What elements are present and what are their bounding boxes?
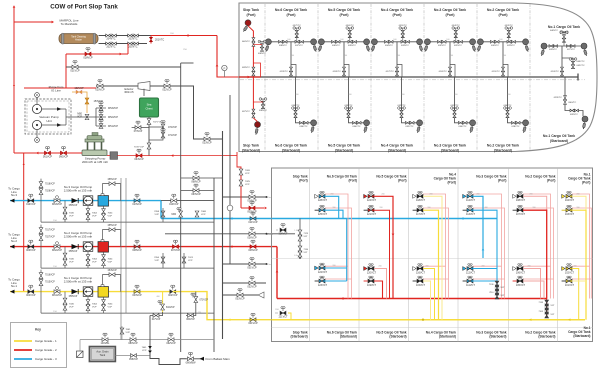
svg-text:7064: 7064 [92, 213, 98, 215]
key cargo grade 1 [14, 340, 32, 342]
svg-text:120VCT: 120VCT [367, 271, 377, 274]
wire strip stub No.6 stbdC [325, 265, 348, 267]
check valve vac 1 [42, 108, 66, 110]
svg-text:7041: 7041 [142, 347, 148, 349]
valve pair 032VTC No.4S [406, 121, 410, 124]
svg-text:117VCT: 117VCT [416, 213, 425, 216]
svg-text:063VCP: 063VCP [191, 193, 201, 196]
wire heater outlet top [99, 35, 152, 37]
svg-text:205VTC: 205VTC [128, 45, 137, 48]
wire route 124VCT [374, 196, 393, 298]
svg-text:126VCT: 126VCT [278, 233, 288, 236]
wire bus x214 [213, 178, 215, 352]
wire red drop left [65, 54, 67, 88]
valve 018VCP [85, 52, 91, 56]
wire route 128VCT [325, 196, 339, 218]
svg-text:1.20m: 1.20m [267, 234, 273, 236]
No.2 cargo oil pump [83, 242, 93, 252]
arrow to cargo line No.2 [10, 245, 15, 249]
valve pair 029VTC No.2P [507, 40, 511, 43]
svg-text:Aux. Drain: Aux. Drain [96, 350, 109, 354]
svg-text:No.3 Cargo Oil Tank: No.3 Cargo Oil Tank [434, 144, 466, 148]
svg-text:037VTC: 037VTC [242, 111, 250, 113]
deck column line 4 [457, 168, 459, 342]
svg-text:6.5m: 6.5m [267, 264, 272, 266]
wire red vert x241 [240, 170, 242, 208]
svg-text:032VTC: 032VTC [438, 45, 446, 47]
wire MARPOL branch to manifolds [14, 21, 52, 23]
wire purge line [24, 87, 96, 89]
wire route No.4A [423, 196, 442, 319]
svg-text:064VCP: 064VCP [134, 158, 144, 161]
wire route 105VCT [523, 281, 544, 299]
valve cluster 038VTC slopS [259, 98, 262, 101]
eductor 300m3/h [138, 82, 150, 91]
vacuum pump unit box [25, 99, 71, 134]
svg-text:103VCT: 103VCT [565, 213, 575, 216]
valve cluster 041VTC no1S [570, 109, 574, 112]
svg-text:034VTC: 034VTC [352, 126, 360, 128]
svg-text:026VCP: 026VCP [247, 236, 257, 239]
wire route 125VCT [325, 210, 343, 218]
valve cluster 032VTC No.4S [398, 107, 401, 110]
valve M51VCP [99, 124, 103, 129]
valve 013VCP [134, 199, 140, 203]
svg-text:(Starboard): (Starboard) [340, 335, 357, 339]
wire drop No.5 port [343, 42, 345, 77]
machine No.5 port left [318, 44, 323, 52]
svg-text:(Port): (Port) [445, 13, 454, 17]
svg-text:010VCP: 010VCP [169, 203, 179, 206]
valve 201VTC [150, 37, 153, 41]
svg-text:003VCP: 003VCP [132, 294, 142, 297]
svg-text:113VCT: 113VCT [466, 213, 475, 216]
machine no1 port right [581, 43, 588, 56]
svg-text:053VTC: 053VTC [505, 25, 513, 27]
valve stack 7136VCT [495, 281, 499, 287]
svg-text:121VCT: 121VCT [367, 213, 377, 216]
wire bus x121 [120, 178, 122, 340]
valve 119VCT No.5 stbd D [364, 280, 368, 282]
wire yellow jog [173, 292, 272, 320]
valve pair 010VTC no1 [561, 67, 564, 71]
svg-text:124VCT: 124VCT [367, 199, 377, 202]
wire drop No.3 port [449, 42, 451, 77]
wire 072 branch [149, 127, 163, 140]
svg-text:No.6 Cargo Oil Tank: No.6 Cargo Oil Tank [275, 8, 307, 12]
svg-text:200m³/h at 135 mth: 200m³/h at 135 mth [82, 160, 108, 164]
wire strip route No.1 portB [572, 208, 591, 299]
svg-text:M60: M60 [172, 214, 177, 216]
svg-text:034VTC: 034VTC [385, 45, 393, 47]
wire strip route No.2 portA [523, 194, 551, 299]
svg-text:(Port): (Port) [349, 179, 358, 183]
yellow main line [272, 319, 586, 321]
svg-text:6.5m: 6.5m [267, 197, 272, 199]
svg-text:300m³/h: 300m³/h [124, 90, 134, 94]
valve stack 7026VCP [239, 169, 243, 175]
svg-text:036VTC: 036VTC [332, 45, 340, 47]
check valves 7041VCP [148, 346, 152, 349]
wire red deck link [276, 247, 278, 299]
svg-text:022VCP: 022VCP [162, 89, 172, 92]
valve M50VCP [85, 114, 89, 119]
wire purge elbow [72, 92, 87, 113]
wire strip route No.6 portB [325, 208, 352, 299]
aux drain tank [89, 347, 115, 362]
machine No.5 port right [365, 44, 370, 52]
ship centerline [240, 79, 585, 81]
wire riser No.5 stbd [349, 77, 367, 123]
wire riser no1 stbd [565, 77, 583, 116]
wire drain header [80, 339, 214, 341]
svg-text:016VTC: 016VTC [439, 71, 447, 73]
svg-text:VCP: VCP [155, 214, 160, 216]
suction stub valves A No.2 [64, 247, 66, 269]
svg-text:107VCT: 107VCT [516, 213, 526, 216]
valve 052VTC no1 [560, 31, 563, 34]
svg-text:030VTC: 030VTC [568, 102, 576, 104]
blue main line [272, 218, 498, 220]
svg-text:(Port): (Port) [246, 13, 255, 17]
arrow red feed [230, 245, 232, 248]
svg-text:102VCT: 102VCT [565, 271, 575, 274]
svg-text:7056: 7056 [154, 257, 160, 259]
wire drop no1 port [561, 46, 563, 77]
svg-text:(Port): (Port) [448, 181, 457, 185]
deck column line 5 [508, 168, 510, 342]
svg-text:011VCP: 011VCP [248, 221, 257, 224]
wire strip stub No.2 stbdD [523, 278, 554, 280]
wire riser No.2 stbd [508, 77, 526, 123]
wire eductor line [96, 85, 138, 87]
valve pair 015VTC No.2P [502, 67, 505, 71]
svg-text:203VTC: 203VTC [128, 37, 137, 40]
svg-text:Key: Key [35, 328, 41, 332]
valve 617VCP2 [153, 314, 159, 318]
svg-text:073VCP: 073VCP [134, 131, 143, 133]
valve 002VCP [170, 290, 176, 294]
valve 7058VCP [161, 211, 165, 217]
arrow yellow main 1 [529, 318, 531, 321]
wire strip stub No.2 stbdC [523, 265, 551, 267]
svg-text:Slop Tank: Slop Tank [243, 144, 259, 148]
svg-text:037VTC: 037VTC [295, 45, 303, 47]
valve 123VCT No.6 stbd D [315, 280, 319, 282]
valve 104VCT No.1 port A [562, 194, 566, 198]
svg-text:004VCP: 004VCP [26, 294, 36, 297]
wire bus x180 [180, 63, 182, 352]
svg-text:7017VCP: 7017VCP [45, 230, 55, 232]
No.1 cargo oil pump [83, 287, 93, 297]
wire eductor drive down [143, 89, 145, 96]
valve cluster 034VTC No.6S [292, 107, 295, 110]
wire route 112VCT [473, 268, 497, 270]
machine slop port [242, 24, 249, 32]
svg-text:M: M [36, 93, 38, 97]
wire tank line no1 port [544, 45, 584, 47]
svg-text:7068: 7068 [201, 211, 207, 213]
valve 001VCP [250, 318, 256, 322]
bypass valve 155VCP [103, 230, 121, 247]
valve pair 030VTC No.2P [491, 40, 495, 43]
valve 128VCT No.6 port A [315, 194, 319, 198]
wire route 111VCT [473, 280, 497, 282]
valve 060VCPb [188, 314, 194, 318]
svg-text:033VTC: 033VTC [401, 45, 409, 47]
wire eductor outlet [150, 86, 223, 139]
arrow red main right [188, 34, 190, 37]
svg-text:VCP: VCP [126, 332, 131, 334]
tank separator line 4 [423, 4, 425, 151]
svg-text:042VTC: 042VTC [577, 65, 585, 67]
svg-text:Slop Tank: Slop Tank [243, 8, 259, 12]
deck row line mid [272, 258, 593, 260]
wire heater outlet bottom [99, 43, 148, 45]
valve 112VCT No.3 stbd C [463, 267, 467, 271]
bypass elbow slop [253, 63, 260, 77]
valve stack 7105VCT [545, 308, 549, 314]
svg-text:060VCP: 060VCP [59, 156, 69, 159]
valve 072VCP [161, 124, 165, 130]
svg-text:No.4 Cargo Oil Tank: No.4 Cargo Oil Tank [381, 8, 413, 12]
svg-text:018VCP: 018VCP [83, 57, 93, 60]
svg-text:(Starboard): (Starboard) [389, 335, 406, 339]
svg-text:062VCP: 062VCP [166, 342, 176, 345]
svg-text:No.5 Cargo Oil Tank: No.5 Cargo Oil Tank [328, 144, 360, 148]
valve 125VCT No.6 port B [315, 209, 319, 211]
tank separator line 2 [317, 4, 319, 151]
svg-text:617VCP: 617VCP [152, 319, 161, 321]
wire strip stub No.1 stbdD [572, 278, 591, 280]
arrow 005VCP [265, 207, 267, 210]
svg-text:018VTC: 018VTC [333, 71, 341, 73]
svg-text:204VTC: 204VTC [106, 37, 115, 40]
wire bus x222 [222, 131, 224, 339]
valve pair 034VTC No.4P [385, 40, 389, 43]
valve 021VCP [72, 65, 78, 69]
wire strip route No.4 portA [423, 194, 446, 299]
wire connector y63 [181, 62, 194, 64]
svg-text:112VCT: 112VCT [466, 271, 475, 274]
valve 121VCT No.5 port B [364, 209, 368, 211]
tank separator line 6 [529, 4, 531, 151]
machine No.4 port right [418, 44, 423, 52]
svg-text:VCP: VCP [245, 173, 250, 175]
key cargo grade 3 [14, 358, 32, 360]
wire gray y264 [223, 263, 267, 265]
svg-text:068VCP: 068VCP [191, 181, 201, 184]
wire blue drop No.6 stbd [346, 219, 348, 282]
wire drop No.6 port [290, 42, 292, 77]
bypass elbow No.3P [450, 65, 455, 78]
svg-text:To Manifolds: To Manifolds [61, 22, 78, 26]
svg-text:072VCP: 072VCP [168, 126, 177, 129]
svg-text:054VTC: 054VTC [452, 25, 460, 27]
arrow riser up mid [13, 84, 15, 86]
svg-text:7058: 7058 [154, 211, 160, 213]
machine No.6 stbd [310, 125, 314, 133]
pressure gauge P [223, 71, 225, 77]
arrow yellow feed [228, 318, 230, 321]
wire vac outlet [65, 109, 67, 125]
svg-text:043VTC: 043VTC [577, 61, 585, 63]
valve pair 017VTC No.4P [396, 67, 399, 71]
svg-text:010VTC: 010VTC [551, 71, 559, 73]
valve 008VCP [134, 245, 140, 249]
wire header y190 [181, 190, 214, 192]
svg-text:7045: 7045 [69, 304, 75, 306]
wire red feed 018VCP [66, 53, 128, 55]
machine No.3 stbd [469, 125, 473, 133]
svg-text:128VCT: 128VCT [318, 199, 328, 202]
tank separator line 3 [370, 4, 372, 151]
valve M62VCP [54, 245, 60, 249]
wire route 121VCT [374, 210, 390, 298]
svg-text:7025: 7025 [245, 181, 251, 183]
svg-text:036VTC: 036VTC [299, 126, 307, 128]
wire MARPOL red riser [13, 8, 15, 154]
svg-text:M52VCP: M52VCP [108, 116, 118, 119]
wire strip route No.3 portB [473, 208, 505, 299]
svg-text:Unit: Unit [46, 119, 52, 123]
valve cluster 030VTC No.2S [504, 107, 507, 110]
svg-text:COW of Port Slop Tank: COW of Port Slop Tank [50, 4, 118, 11]
arrow red riser lower up [23, 163, 25, 165]
svg-text:020VCP: 020VCP [95, 89, 105, 92]
svg-text:002VCP: 002VCP [168, 294, 178, 297]
svg-text:040VTC: 040VTC [550, 30, 558, 32]
key box [11, 323, 67, 368]
wire strip stub No.3 stbdD [473, 278, 505, 280]
valve pair 037VTC No.6P [295, 40, 299, 43]
valve 006VCP [250, 245, 256, 249]
gauge on x230 [227, 205, 233, 211]
valve stack 7129VCT [299, 219, 301, 259]
svg-text:115VCT: 115VCT [416, 284, 425, 287]
svg-text:Cargo Grade - 1: Cargo Grade - 1 [35, 339, 57, 343]
svg-text:027VTC: 027VTC [567, 49, 575, 51]
machine No.2 port left [477, 44, 482, 52]
valve pair 030VTC No.3S [459, 121, 463, 124]
wire route 101VCT [572, 280, 586, 282]
valve 058VCP [115, 355, 150, 357]
svg-text:(Starboard): (Starboard) [573, 334, 590, 338]
wire route 106VCT [523, 269, 541, 299]
wire vac manifold [95, 108, 97, 126]
svg-text:7026: 7026 [245, 170, 251, 172]
wire route 113VCT [473, 210, 497, 296]
deck column line 3 [408, 168, 410, 342]
wire tank line No.4 port [374, 41, 419, 43]
svg-text:(Starboard): (Starboard) [335, 148, 353, 152]
svg-text:No.3 Cargo Oil Tank: No.3 Cargo Oil Tank [434, 8, 466, 12]
svg-text:(Starboard): (Starboard) [489, 335, 506, 339]
svg-text:(Starboard): (Starboard) [494, 148, 512, 152]
svg-text:021VCP: 021VCP [70, 70, 80, 73]
svg-text:156VCP: 156VCP [107, 178, 117, 181]
svg-text:1.3m: 1.3m [294, 230, 299, 232]
svg-text:No.4 Cargo Oil Tank: No.4 Cargo Oil Tank [381, 144, 413, 148]
svg-text:(Port): (Port) [547, 179, 556, 183]
wire blue jog down [160, 201, 162, 219]
svg-text:035VTC: 035VTC [348, 45, 356, 47]
valve 114VCT No.3 port A [463, 194, 467, 198]
machine No.5 stbd [363, 125, 367, 133]
svg-text:(Starboard): (Starboard) [439, 335, 456, 339]
deck column line 2 [358, 168, 360, 342]
svg-text:No.3: No.3 [11, 193, 17, 197]
svg-text:VCP: VCP [69, 307, 74, 309]
tank cleaning heater [59, 34, 98, 44]
valve 062VCP stack [161, 257, 165, 263]
valve 057VTC No.6P [293, 27, 296, 30]
suction stub valves B No.1 [87, 297, 89, 313]
motor M bottom [35, 138, 40, 143]
svg-text:111VCT: 111VCT [466, 284, 475, 287]
wire strip route No.1 portA [572, 194, 590, 299]
wire heater right riser [150, 36, 152, 44]
wire strip route No.6 portA [325, 194, 348, 299]
svg-text:058VCP: 058VCP [69, 205, 78, 207]
svg-text:023VCP: 023VCP [202, 142, 212, 145]
wire route 119VCT [374, 281, 383, 299]
machine No.2 port right [524, 44, 529, 52]
No.1 pump discharge block [98, 287, 109, 298]
bypass elbow No.4P [397, 65, 402, 78]
wire blue pumpline dark continuation [161, 200, 214, 202]
valve 7074VCP [182, 257, 186, 263]
svg-text:114VCT: 114VCT [466, 199, 475, 202]
svg-text:056VTC: 056VTC [346, 25, 354, 27]
valve pair 031VTC No.3P [454, 40, 458, 43]
svg-text:119VCT: 119VCT [367, 284, 376, 287]
valve pair 037VTC slopS [252, 109, 255, 113]
valve pair 040VTC slop [252, 38, 255, 42]
valve 106VCT No.2 stbd C [513, 267, 517, 271]
svg-text:055VTC: 055VTC [399, 25, 407, 27]
svg-text:7016VCP: 7016VCP [45, 275, 55, 277]
wire x150 vertical [149, 316, 151, 353]
svg-text:VCP: VCP [69, 216, 74, 218]
svg-text:7027VCP: 7027VCP [45, 237, 55, 239]
svg-text:032VTC: 032VTC [397, 105, 405, 107]
svg-text:154VCP: 154VCP [107, 269, 117, 272]
svg-text:VCP: VCP [142, 350, 147, 352]
suction stub valves B No.3 [87, 206, 89, 222]
svg-text:039VTC: 039VTC [242, 67, 250, 69]
svg-text:2,500m³/h at 135 mth: 2,500m³/h at 135 mth [64, 280, 93, 284]
valve 009VCP [28, 245, 34, 249]
svg-text:Cargo Grade - 2: Cargo Grade - 2 [35, 348, 57, 352]
valve 032VCP [249, 281, 255, 285]
valve 080VCP [130, 338, 136, 342]
svg-text:(Starboard): (Starboard) [538, 335, 555, 339]
arrow yellow main 2 [568, 318, 570, 321]
wire gray line 021VCP [66, 66, 181, 68]
svg-text:032VTC: 032VTC [405, 126, 413, 128]
svg-text:No.2: No.2 [11, 239, 17, 243]
valve M61VCP [54, 290, 60, 294]
valve stack 7133VCT [546, 299, 548, 317]
motor M top [35, 93, 40, 98]
svg-text:106VCT: 106VCT [516, 271, 526, 274]
valve 101VCT No.1 stbd D [562, 280, 566, 282]
hull outline [239, 3, 597, 152]
valve 033VCP [237, 293, 243, 297]
svg-text:014VCP: 014VCP [26, 203, 36, 206]
tank separator line 5 [476, 4, 478, 151]
